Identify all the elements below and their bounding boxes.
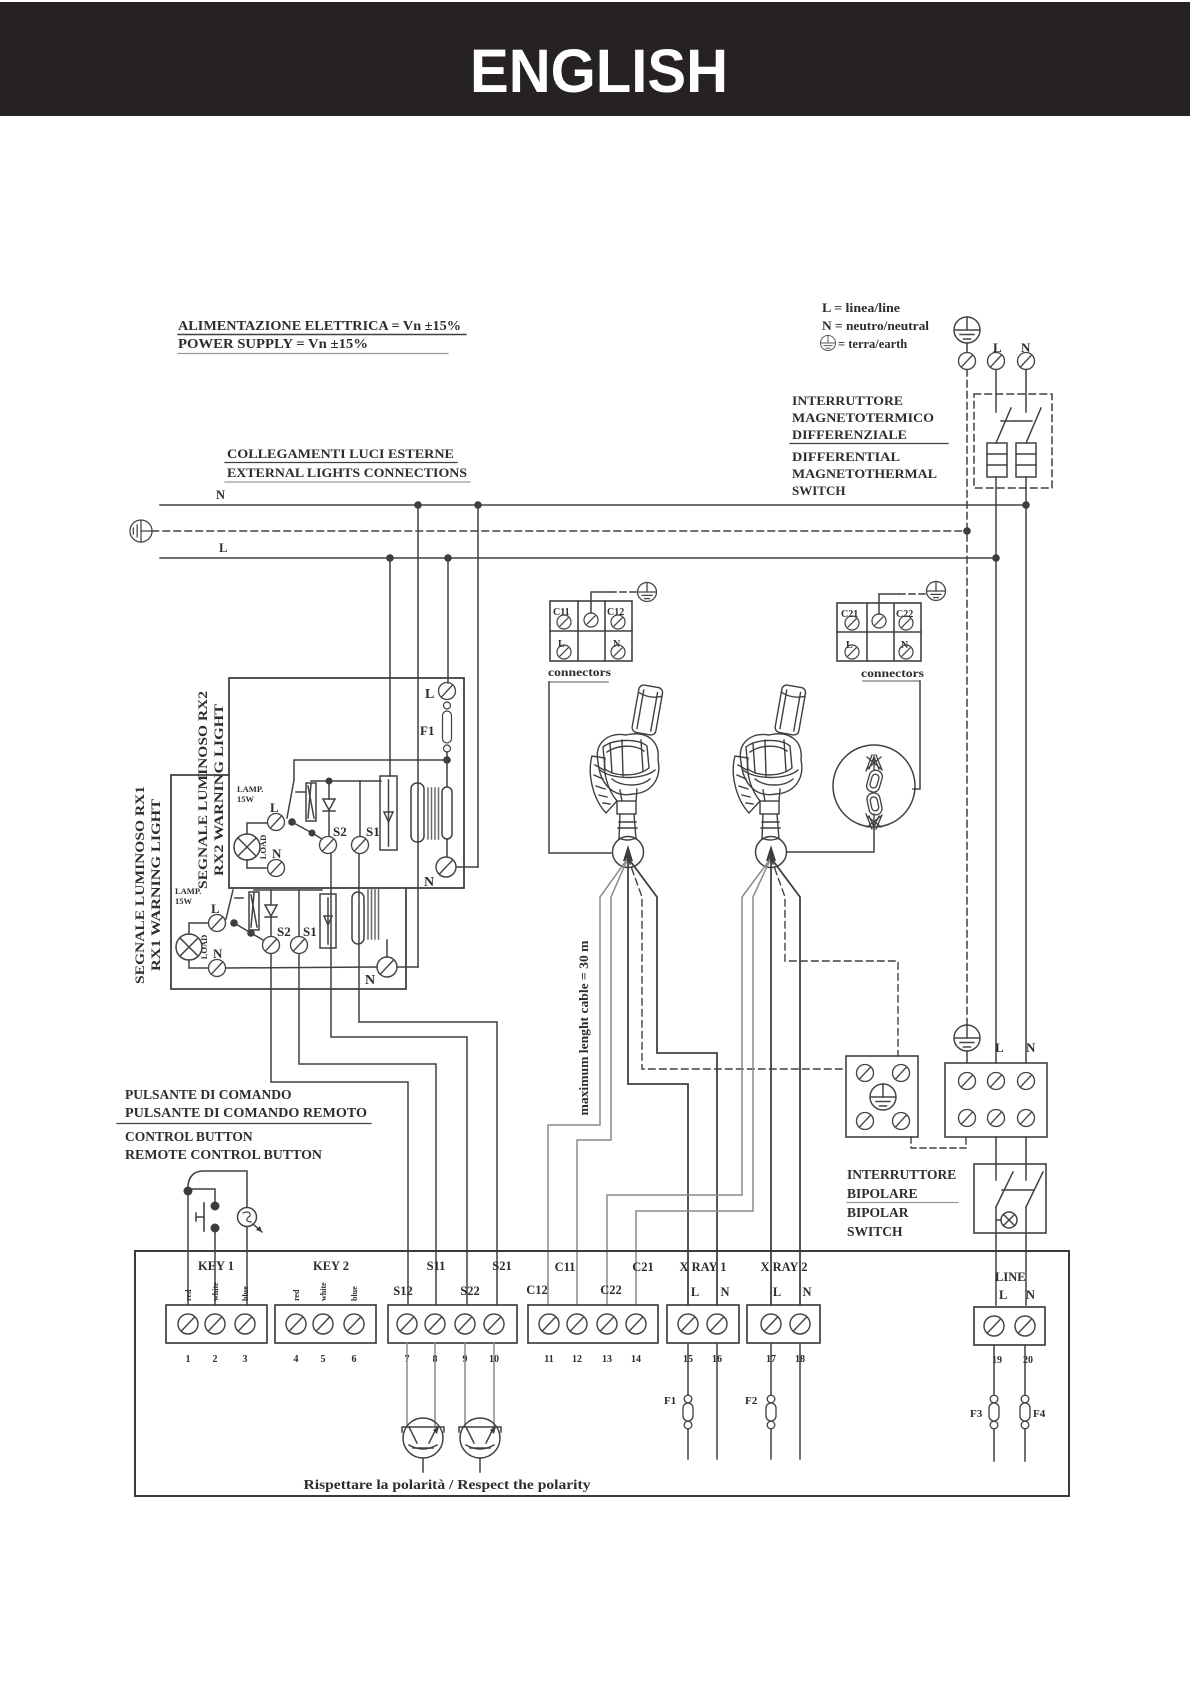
wire L out bipolar [995,1207,997,1305]
svg-text:INTERRUTTORE: INTERRUTTORE [792,393,903,408]
svg-text:C21: C21 [841,609,858,620]
fuse F4 [1020,1395,1030,1429]
svg-text:CONTROL BUTTON: CONTROL BUTTON [125,1129,253,1144]
svg-text:N: N [272,846,282,861]
relay coil RX1 [320,894,336,948]
svg-text:N = neutro/neutral: N = neutro/neutral [822,319,930,333]
wire fan M1 to C12 terminal 12 [577,858,628,1305]
control board outline [135,1251,1069,1496]
svg-text:F1: F1 [420,723,434,738]
svg-text:L: L [773,1285,781,1299]
wire N link RX1 [397,966,418,968]
svg-text:RX2 WARNING LIGHT: RX2 WARNING LIGHT [211,704,226,876]
svg-text:C22: C22 [600,1283,622,1297]
wire lamp bottom to N [247,860,266,868]
wire chain to motor2 [787,827,874,852]
terminal block S [388,1305,517,1343]
wire block1 to motor1 [549,682,611,853]
svg-text:12: 12 [572,1354,582,1365]
svg-text:COLLEGAMENTI LUCI ESTERNE: COLLEGAMENTI LUCI ESTERNE [227,446,454,461]
coil bars RX1 [368,889,379,939]
svg-text:SEGNALE LUMINOSO RX2: SEGNALE LUMINOSO RX2 [195,691,210,889]
dashed earth link block2 [899,593,926,595]
svg-text:X RAY 1: X RAY 1 [680,1260,727,1274]
svg-text:ALIMENTAZIONE ELETTRICA = Vn ±: ALIMENTAZIONE ELETTRICA = Vn ±15% [178,318,461,333]
wire capsule to N [446,839,448,857]
svg-text:BIPOLARE: BIPOLARE [847,1186,918,1201]
switch tick RX1 [235,897,243,899]
relay coil RX2 [380,776,397,850]
terminal L RX2 [439,683,456,700]
svg-text:N: N [216,488,225,502]
svg-text:Rispettare la polarità / Respe: Rispettare la polarità / Respect the pol… [304,1477,591,1492]
terminal N top [1018,353,1035,370]
svg-text:LOAD: LOAD [199,935,209,960]
wire N feed down to terminal box [1025,477,1027,1063]
wire earth stem LN box [966,1051,968,1063]
fuse F3 [989,1395,999,1429]
LN box terminal r1c2 [988,1073,1005,1090]
wire terminal 10 to photocell [493,1343,495,1427]
terminal 17 [761,1314,781,1334]
wire node down to lamp unit [446,760,448,787]
LN box terminal r2c1 [959,1110,976,1127]
wire button arc to remote [188,1171,247,1207]
svg-text:14: 14 [631,1354,641,1365]
terminal 16 [707,1314,727,1334]
chain sketch [865,755,884,829]
svg-text:X RAY 2: X RAY 2 [761,1260,808,1274]
underline [225,481,470,483]
svg-text:15W: 15W [237,794,255,804]
wire earth stem [966,343,968,353]
wire button to terminal 1 [187,1195,189,1305]
breaker pole N blade [1026,408,1041,443]
switch blade RX2 [287,780,294,818]
svg-text:blue: blue [241,1286,250,1301]
wire relay top RX2 [311,780,381,782]
svg-text:L: L [999,1288,1007,1302]
svg-text:N: N [1021,340,1031,355]
svg-text:1: 1 [186,1354,191,1365]
wire earth link block2 [879,594,899,614]
LINE terminal 20 [1015,1316,1035,1336]
contact node upper [211,1202,220,1211]
diode RX1 [265,890,277,936]
terminal 12 [567,1314,587,1334]
svg-text:5: 5 [321,1354,326,1365]
svg-text:REMOTE CONTROL BUTTON: REMOTE CONTROL BUTTON [125,1147,322,1162]
LN box terminal r2c3 [1018,1110,1035,1127]
wire N lamp run RX1 [226,967,377,968]
underline [847,1202,958,1204]
LN box terminal r1c3 [1018,1073,1035,1090]
svg-text:N: N [213,946,223,961]
svg-text:L = linea/line: L = linea/line [822,301,900,315]
wire node links RX1 [234,923,263,940]
svg-text:L: L [993,340,1002,355]
terminal S1 RX2 [352,837,369,854]
svg-text:LINE: LINE [995,1270,1026,1284]
chain detail circle [833,745,915,827]
node switch RX2 [288,818,296,826]
lamp housing RX2 [411,783,424,842]
terminal 15 [678,1314,698,1334]
svg-text:connectors: connectors [548,667,612,679]
svg-text:L: L [425,687,434,702]
node N bus / N wire [1022,501,1030,509]
wire 20 to fuse F4 [1024,1345,1026,1395]
svg-text:C21: C21 [632,1260,654,1274]
breaker thermal element L [987,443,1007,477]
terminal N lamp RX2 [268,860,285,877]
connector block 1 (C11/C12) [550,601,632,661]
svg-text:N: N [1026,1040,1036,1055]
wire N drop RX2 [477,505,479,867]
terminal 2 [205,1314,225,1334]
wire remote to terminal 3 [246,1227,248,1305]
underline [178,334,466,336]
svg-text:S22: S22 [460,1284,479,1298]
flasher element RX2 [306,783,316,821]
wire S1 up RX1 [298,890,300,936]
terminal 4 [286,1314,306,1334]
junction earth symbol [870,1084,896,1110]
breaker U0 dashed box [974,394,1052,488]
svg-text:MAGNETOTERMICO: MAGNETOTERMICO [792,410,934,425]
label LAMP 15W [237,784,263,804]
underline [117,1123,371,1125]
diode RX2 [323,781,335,836]
connector block 2 (C21/C22) [837,603,921,661]
earth symbol top right [954,317,980,343]
svg-text:PULSANTE DI COMANDO REMOTO: PULSANTE DI COMANDO REMOTO [125,1105,367,1120]
wire terminal 15 to fuse F1 [687,1343,689,1395]
node L drop RX2 [444,554,452,562]
svg-text:F2: F2 [745,1395,758,1407]
wire fan M1 to C11 terminal 11 [548,858,628,1305]
wire node to contact [191,1189,215,1202]
terminal PE top [959,353,976,370]
junction terminal 4 [893,1113,910,1130]
svg-text:6: 6 [352,1354,357,1365]
terminal block C [528,1305,658,1343]
junction terminals [857,1065,874,1082]
svg-text:= terra/earth: = terra/earth [838,337,907,351]
terminals row2 block2 [845,645,913,659]
svg-text:MAGNETOTHERMAL: MAGNETOTHERMAL [792,466,937,481]
terminal S2 RX1 [263,937,280,954]
earth symbol left [130,520,152,542]
motor M2 arrow [766,845,776,861]
svg-text:KEY 2: KEY 2 [313,1259,349,1273]
wire below F4 [1024,1429,1026,1461]
terminal N out RX2 [436,857,456,877]
svg-text:S2: S2 [333,824,347,839]
wire relay top RX1 [254,889,322,891]
wire fuse to node [446,752,448,760]
warning light RX1 box [171,775,406,989]
terminal numbers 1-18 [186,1354,806,1365]
wire to N out RX1 [386,940,388,957]
fuse F1 RX2 [443,702,452,752]
svg-text:S1: S1 [303,924,317,939]
lamp RX1 [176,934,202,960]
terminal S1 RX1 [291,937,308,954]
LN terminal box [945,1063,1047,1137]
svg-text:F4: F4 [1033,1408,1046,1420]
svg-text:S2: S2 [277,924,291,939]
LN box terminal r1c1 [959,1073,976,1090]
underline [790,443,948,445]
wire terminal 8 to photocell [434,1343,436,1427]
junction box J1 [846,1056,918,1137]
node lamp circuit RX2 [309,830,316,837]
terminal 8 [425,1314,445,1334]
svg-text:L: L [270,800,279,815]
svg-text:LAMP.: LAMP. [175,886,201,896]
svg-text:S1: S1 [366,824,380,839]
wire N link RX2 [456,866,478,868]
junction terminal 2 [893,1065,910,1082]
motor M1 actuator sketch [590,684,663,840]
wire N drop RX1 [417,505,419,967]
contact node lower [211,1224,220,1233]
svg-text:ENGLISH: ENGLISH [470,37,728,105]
svg-text:connectors: connectors [861,668,925,680]
node L bus / L wire [992,554,1000,562]
node switch RX1 [230,919,238,927]
terminal S2 RX2 [320,837,337,854]
earth symbol block1 [638,583,657,602]
photocell transistor Q1 [402,1418,444,1472]
terminals row2 block1 [557,645,625,659]
wire S2 RX2 to terminal 9 [331,854,467,1305]
terminal 13 [597,1314,617,1334]
svg-text:L: L [691,1285,699,1299]
terminals row1 block2 [845,614,913,630]
dashed wire junction to LN box [911,1137,966,1148]
bipolar lamp [996,1212,1017,1228]
PE bus dashed wire [152,530,967,532]
svg-text:L: L [995,1040,1004,1055]
terminal 5 [313,1314,333,1334]
svg-text:15W: 15W [175,896,193,906]
wire fan M2 earth dashed [771,858,898,1056]
wire terminal 7 to photocell [406,1343,408,1427]
wire terminal 9 to photocell [464,1343,466,1427]
breaker linkage [1001,420,1032,422]
svg-text:POWER SUPPLY = Vn ±15%: POWER SUPPLY = Vn ±15% [178,336,368,351]
N bus wire [160,504,1026,506]
svg-text:L: L [219,541,227,555]
label control button [125,1087,367,1162]
bipolar blade N [1026,1172,1043,1207]
svg-text:N: N [424,875,434,890]
motor M2 actuator sketch [733,684,806,840]
terminals row1 block1 [557,613,625,629]
wire S1 RX1 to terminal 8 [299,954,436,1305]
svg-text:SEGNALE LUMINOSO RX1: SEGNALE LUMINOSO RX1 [132,786,147,984]
terminal L RX1 [209,915,226,932]
svg-text:N: N [1026,1288,1035,1302]
wire below F3 [993,1429,995,1461]
wire node to switch [294,760,447,779]
motor M2 ball joint [756,837,787,868]
wire fan M1 N to terminal 16 [628,858,717,1305]
svg-text:white: white [319,1282,328,1301]
junction terminal 3 [857,1113,874,1130]
LN box terminal r2c2 [988,1110,1005,1127]
svg-text:INTERRUTTORE: INTERRUTTORE [847,1167,956,1182]
wire N into breaker [1025,370,1027,413]
svg-text:blue: blue [350,1286,359,1301]
svg-text:DIFFERENTIAL: DIFFERENTIAL [792,449,900,464]
wire S2 RX1 to terminal 7 [271,954,408,1305]
wire fan M2 L to terminal 17 [770,858,772,1305]
switch tick [296,791,305,793]
svg-text:F1: F1 [664,1395,676,1407]
node N drop RX2 [474,501,482,509]
wire S1 RX2 to terminal 10 [359,854,497,1305]
breaker thermal element N [1016,443,1036,477]
svg-text:DIFFERENZIALE: DIFFERENZIALE [792,427,907,442]
terminal block KEY1 [166,1305,267,1343]
ballast capsule RX2 [442,787,452,839]
wire below F2 [770,1429,772,1459]
wire N into bipolar [1025,1137,1027,1180]
LINE terminal 19 [984,1316,1004,1336]
terminal 11 [539,1314,559,1334]
wire fan M2 N to terminal 18 [771,858,800,1305]
svg-text:red: red [184,1289,193,1301]
svg-text:2: 2 [213,1354,218,1365]
wire fan M1 earth dashed [628,858,846,1069]
wire S1 up RX2 [359,781,361,836]
label differential magnetothermal switch [792,393,937,498]
underline [225,462,457,464]
fuse F1 board [683,1395,693,1429]
wire lamp top [247,823,267,834]
svg-text:SWITCH: SWITCH [792,483,845,498]
bipolar blade L [996,1172,1013,1207]
wire L feed down to terminal box [995,477,997,1063]
svg-text:S11: S11 [427,1259,446,1273]
node relay RX2 [326,778,333,785]
svg-text:BIPOLAR: BIPOLAR [847,1205,909,1220]
warning light RX2 box [229,678,464,888]
svg-text:maximum lenght cable = 30 m: maximum lenght cable = 30 m [577,940,591,1116]
terminal 6 [344,1314,364,1334]
label LAMP 15W RX1 [175,886,201,906]
earth symbol block2 [927,582,946,601]
node PE bus / PE wire [963,527,971,535]
svg-text:S12: S12 [393,1284,412,1298]
wire below F1 [687,1429,689,1459]
wire L drop RX2 [447,558,449,683]
svg-text:3: 3 [243,1354,248,1365]
svg-text:S21: S21 [492,1259,511,1273]
remote control symbol [238,1208,263,1233]
wire node links RX2 [292,822,322,839]
label bipolar switch [847,1167,956,1239]
svg-text:11: 11 [544,1354,553,1365]
terminal 18 [790,1314,810,1334]
terminal 3 [235,1314,255,1334]
svg-text:LAMP.: LAMP. [237,784,263,794]
terminal 7 [397,1314,417,1334]
svg-text:SWITCH: SWITCH [847,1224,903,1239]
terminal 10 [484,1314,504,1334]
wire lamp bottom RX1 [189,960,208,968]
terminal 1 [178,1314,198,1334]
svg-text:RX1 WARNING LIGHT: RX1 WARNING LIGHT [148,799,163,971]
wire below terminal 16 [716,1343,718,1459]
earth symbol above LN box [954,1025,980,1051]
svg-text:N: N [802,1285,811,1299]
terminal block XRAY1 [667,1305,739,1343]
wire L into breaker [995,370,997,413]
wire L into bipolar [995,1137,997,1180]
L bus wire [160,557,996,559]
svg-text:L: L [211,901,220,916]
svg-text:KEY 1: KEY 1 [198,1259,234,1273]
wire fan M1 L to terminal 15 [628,858,688,1305]
wire fan M2 to C21 terminal 13 [607,858,771,1305]
wire PE dashed down [966,370,968,1026]
node lamp circuit RX1 [247,929,255,937]
wire L drop RX1 [389,558,391,776]
node RX2 [443,756,451,764]
wire earth link block1 [591,592,610,613]
svg-text:C11: C11 [555,1260,576,1274]
svg-text:white: white [211,1282,220,1301]
motor M1 ball joint [613,837,644,868]
wire block2 to chain [863,681,920,789]
motor M1 arrow [623,845,633,861]
svg-text:4: 4 [294,1354,299,1365]
lamp RX2 [234,834,260,860]
terminal block KEY2 [275,1305,376,1343]
svg-text:PULSANTE DI COMANDO: PULSANTE DI COMANDO [125,1087,292,1102]
svg-text:13: 13 [602,1354,612,1365]
fuse F2 board [766,1395,776,1429]
dashed earth link block1 [610,591,637,593]
terminal N out RX1 [377,957,397,977]
wire terminal 17 to fuse F2 [770,1343,772,1395]
wire fan M2 to C22 terminal 14 [636,858,771,1305]
svg-text:F3: F3 [970,1408,983,1420]
svg-text:LOAD: LOAD [258,835,268,860]
switch blade RX1 [226,890,233,919]
wire contact to terminal 2 [214,1232,216,1305]
flasher element RX1 [249,892,259,930]
terminal 9 [455,1314,475,1334]
svg-text:N: N [365,973,375,988]
header black band [0,2,1190,116]
node L drop RX1 [386,554,394,562]
terminal N lamp RX1 [209,960,226,977]
terminal L top [988,353,1005,370]
svg-text:C12: C12 [526,1283,548,1297]
underline [178,353,448,355]
bipolar switch box [974,1164,1046,1233]
node N drop RX1 [414,501,422,509]
terminal L lamp RX2 [268,814,285,831]
breaker pole L blade [996,408,1011,443]
LINE terminal block [974,1307,1045,1345]
wire below terminal 18 [799,1343,801,1459]
